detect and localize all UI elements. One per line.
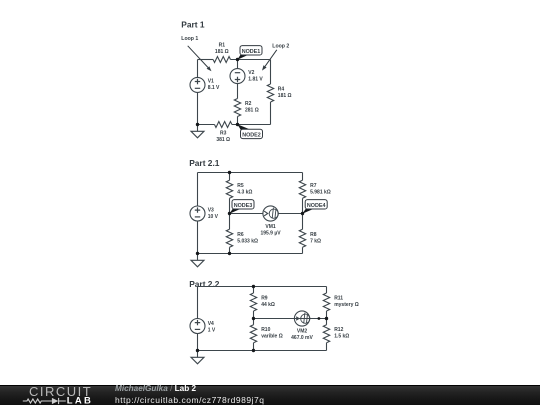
wire P2.2 middle through VM2 — [254, 318, 327, 320]
label V2 value — [248, 70, 263, 82]
svg-text:1 V: 1 V — [208, 327, 216, 333]
svg-text:R11: R11 — [334, 296, 343, 302]
footer url line — [115, 395, 265, 405]
svg-text:195.9 µV: 195.9 µV — [260, 231, 281, 237]
voltage source V4 — [190, 319, 205, 334]
junction dot P1 ground node — [196, 123, 199, 126]
svg-text:varible Ω: varible Ω — [261, 334, 283, 340]
resistor R3 — [215, 122, 232, 128]
wire P2.1 left column above V3 — [197, 173, 199, 207]
svg-text:R8: R8 — [310, 232, 317, 238]
wire P1 left column below V1 — [197, 92, 199, 124]
label R1 value — [215, 43, 229, 56]
junction dot R9 top — [252, 285, 255, 288]
wire P2.2 R12 bottom lead — [326, 343, 328, 351]
wire P1 bottom right segment — [232, 124, 271, 126]
voltage source V1 — [190, 77, 205, 92]
label R3 value — [216, 130, 230, 143]
svg-text:44 kΩ: 44 kΩ — [261, 302, 275, 308]
wire P2.2 R12 top lead — [326, 319, 328, 325]
svg-text:5.981 kΩ: 5.981 kΩ — [310, 189, 331, 195]
svg-text:Loop 2: Loop 2 — [272, 44, 289, 50]
label R2 value — [245, 101, 259, 114]
wire P1 left column above V1 — [197, 60, 199, 78]
resistor R7 — [299, 180, 305, 198]
label V3 value — [208, 208, 219, 221]
svg-text:R4: R4 — [278, 86, 285, 92]
wire P1 top right segment — [231, 59, 271, 61]
svg-text:R2: R2 — [245, 101, 252, 107]
wire P2.2 left column below V4 — [197, 334, 199, 351]
title Part 2.1 — [189, 158, 220, 168]
svg-text:R9: R9 — [261, 296, 268, 302]
wire P2.2 R10 bottom lead — [253, 343, 255, 351]
svg-text:181 Ω: 181 Ω — [278, 93, 292, 99]
svg-text:VM1: VM1 — [265, 224, 276, 230]
annotation Loop 1 arrow — [181, 36, 211, 71]
voltage source V2 — [230, 69, 245, 84]
junction dot VM2 plus terminal — [318, 317, 321, 320]
junction dot R5 top — [228, 171, 231, 174]
ground symbol P2.2 — [191, 351, 204, 364]
svg-text:V4: V4 — [208, 321, 214, 327]
svg-text:V3: V3 — [208, 208, 214, 214]
svg-text:381 Ω: 381 Ω — [216, 137, 230, 143]
title Part 1 — [181, 20, 205, 30]
svg-text:R10: R10 — [261, 327, 270, 333]
svg-text:V1: V1 — [208, 79, 214, 85]
label R9 value — [261, 296, 275, 309]
wire P2.1 bottom — [198, 253, 303, 255]
svg-text:NODE4: NODE4 — [307, 203, 326, 209]
label V1 value — [208, 79, 220, 92]
svg-text:181 Ω: 181 Ω — [215, 49, 229, 55]
svg-text:467.0 mV: 467.0 mV — [291, 335, 313, 341]
node label NODE1 — [237, 46, 262, 60]
svg-text:7 kΩ: 7 kΩ — [310, 238, 321, 244]
ground symbol P2.1 — [191, 254, 204, 267]
svg-text:5.033 kΩ: 5.033 kΩ — [237, 238, 258, 244]
resistor R5 — [226, 180, 232, 198]
svg-text:NODE1: NODE1 — [242, 49, 261, 55]
wire P2.2 left column above V4 — [197, 287, 199, 319]
svg-text:R1: R1 — [219, 43, 226, 49]
junction dot R9-R10 node — [252, 317, 255, 320]
junction dot NODE4 — [301, 212, 304, 215]
wire P1 V2 top lead — [237, 60, 239, 69]
footer CircuitLab logo — [0, 385, 110, 405]
label VM1 value — [260, 224, 281, 237]
resistor R2 — [234, 99, 240, 117]
resistor R11 — [323, 293, 329, 311]
label R4 value — [278, 86, 292, 99]
wire P1 bottom left segment — [198, 124, 215, 126]
resistor R4 — [267, 84, 273, 102]
svg-text:R6: R6 — [237, 232, 244, 238]
label R11 value — [334, 296, 359, 309]
label R8 value — [310, 232, 321, 245]
svg-text:NODE3: NODE3 — [234, 203, 253, 209]
junction dot NODE1 — [236, 58, 239, 61]
wire P2.1 R7-NODE4-R8 — [302, 198, 304, 229]
svg-text:281 Ω: 281 Ω — [245, 108, 259, 114]
wire P1 right column below R4 — [270, 102, 272, 125]
label R5 value — [237, 183, 252, 196]
svg-text:V2: V2 — [248, 70, 254, 76]
wire P2.1 top — [198, 172, 303, 174]
svg-text:10 V: 10 V — [208, 214, 219, 220]
svg-text:R5: R5 — [237, 183, 244, 189]
svg-text:1.5 kΩ: 1.5 kΩ — [334, 334, 349, 340]
voltmeter VM2 — [294, 311, 310, 326]
svg-text:VM2: VM2 — [297, 328, 308, 334]
label VM2 value — [291, 328, 313, 341]
svg-text:mystery Ω: mystery Ω — [334, 302, 359, 308]
wire P2.2 bottom — [198, 350, 327, 352]
wire P1 R2 bottom lead — [237, 117, 239, 125]
junction dot R6 bottom — [228, 252, 231, 255]
svg-text:4.3 kΩ: 4.3 kΩ — [237, 189, 252, 195]
node label NODE4 — [302, 200, 327, 214]
svg-text:R12: R12 — [334, 327, 343, 333]
wire P2.2 R11 top lead — [326, 287, 328, 294]
resistor R1 — [213, 57, 230, 63]
junction dot P2.2 ground node — [196, 349, 199, 352]
svg-text:Part 2.1: Part 2.1 — [189, 158, 220, 168]
wire P1 right column above R4 — [270, 60, 272, 85]
label R6 value — [237, 232, 258, 245]
wire P2.2 R9 bottom lead — [253, 311, 255, 319]
footer author line — [115, 384, 196, 393]
resistor R8 — [299, 229, 305, 247]
junction dot NODE2 — [236, 123, 239, 126]
voltmeter VM1 — [263, 206, 279, 221]
wire P2.2 R9 top lead — [253, 287, 255, 294]
svg-text:LAB: LAB — [67, 396, 93, 405]
wire P2.1 NODE3 to VM1 — [230, 213, 263, 215]
wire P2.1 R5-NODE3-R6 — [229, 198, 231, 229]
wire P2.1 left column below V3 — [197, 221, 199, 254]
resistor R6 — [226, 229, 232, 247]
svg-text:R3: R3 — [220, 130, 227, 136]
svg-text:Part 1: Part 1 — [181, 20, 205, 30]
wire P2.1 R5 top lead — [229, 173, 231, 181]
wire P2.2 top — [198, 286, 327, 288]
svg-text:NODE2: NODE2 — [242, 132, 261, 138]
junction dot R11-R12 node — [325, 317, 328, 320]
label V4 value — [208, 321, 216, 334]
label R10 value — [261, 327, 283, 340]
junction dot R10 bottom — [252, 349, 255, 352]
wire P2.1 R6 bottom lead — [229, 247, 231, 253]
wire P1 top left segment — [198, 59, 214, 61]
svg-text:Part 2.2: Part 2.2 — [189, 279, 220, 289]
voltage source V3 — [190, 206, 205, 221]
svg-text:8.1 V: 8.1 V — [208, 85, 220, 91]
wire P1 V2-R2 lead — [237, 84, 239, 99]
wire P2.2 R10 top lead — [253, 319, 255, 325]
svg-text:1.81 V: 1.81 V — [248, 76, 263, 82]
annotation Loop 2 arrow — [262, 44, 289, 71]
resistor R12 — [323, 325, 329, 343]
wire P2.1 R8 bottom lead — [302, 247, 304, 253]
wire P2.1 R7 top lead — [302, 173, 304, 181]
wire P2.2 R11 bottom lead — [326, 311, 328, 319]
junction dot P2.1 ground node — [196, 252, 199, 255]
node label NODE2 — [237, 124, 262, 138]
title Part 2.2 — [189, 279, 220, 289]
label R12 value — [334, 327, 349, 340]
resistor R10 — [250, 325, 256, 343]
svg-text:R7: R7 — [310, 183, 317, 189]
svg-text:Loop 1: Loop 1 — [181, 36, 198, 42]
footer bar — [0, 385, 540, 405]
wire P2.1 VM1 to NODE4 — [278, 213, 302, 215]
label R7 value — [310, 183, 331, 196]
resistor R9 — [250, 293, 256, 311]
ground symbol P1 — [191, 125, 204, 138]
junction dot NODE3 — [228, 212, 231, 215]
node label NODE3 — [229, 200, 254, 214]
